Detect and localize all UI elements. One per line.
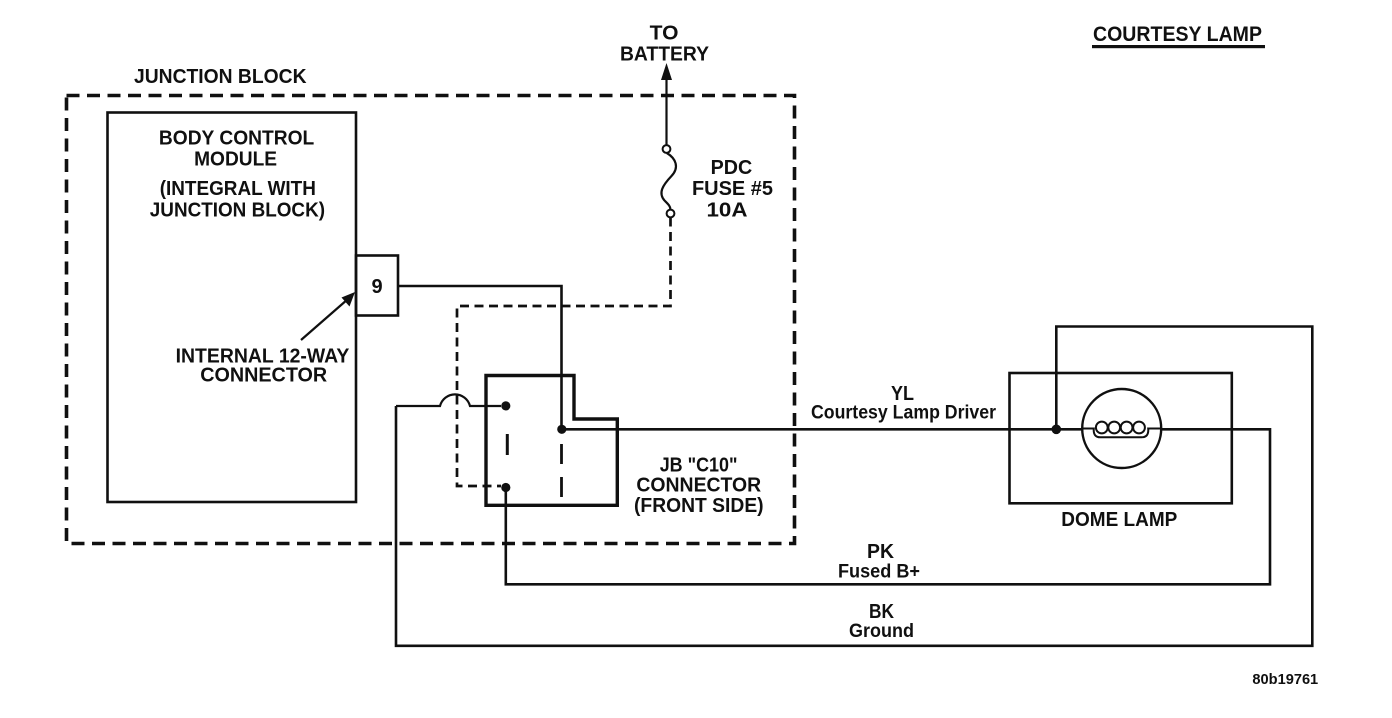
title underline	[1092, 45, 1265, 48]
connector pin box 9	[356, 256, 398, 316]
fuse F5 top terminal circle	[663, 145, 671, 153]
svg-text:10A: 10A	[707, 200, 748, 222]
wire pin 9 to connector C10	[398, 286, 562, 425]
wire PK fused B+	[506, 429, 1270, 584]
dashed wire fuse to junction block	[457, 218, 671, 487]
svg-text:9: 9	[371, 276, 382, 298]
svg-text:CONNECTOR: CONNECTOR	[636, 474, 761, 496]
svg-text:JUNCTION BLOCK): JUNCTION BLOCK)	[150, 200, 325, 222]
junction dot at dome lamp	[1052, 425, 1062, 435]
svg-text:COURTESY LAMP: COURTESY LAMP	[1093, 23, 1262, 46]
svg-text:JUNCTION BLOCK: JUNCTION BLOCK	[134, 66, 307, 88]
dome lamp housing box	[1010, 373, 1232, 503]
svg-text:Fused B+: Fused B+	[838, 562, 920, 583]
svg-text:FUSE #5: FUSE #5	[692, 178, 773, 200]
svg-text:BODY CONTROL: BODY CONTROL	[159, 128, 314, 150]
svg-text:Ground: Ground	[849, 621, 914, 642]
svg-text:MODULE: MODULE	[194, 149, 277, 171]
arrow to battery	[661, 63, 672, 146]
arrow to pin 9	[301, 292, 355, 340]
terminal dot lower left (PK)	[501, 483, 510, 492]
connector cavity dash right	[560, 444, 563, 497]
dome lamp bulb filament	[1083, 422, 1162, 438]
terminal dot YL	[557, 425, 566, 434]
wire YL courtesy lamp driver	[562, 428, 1083, 431]
connector cavity dash left	[506, 434, 509, 455]
wire BK ground	[396, 327, 1312, 646]
svg-text:CONNECTOR: CONNECTOR	[200, 364, 328, 386]
svg-text:BK: BK	[869, 601, 894, 623]
terminal dot upper left (BK)	[501, 401, 510, 410]
svg-text:Courtesy Lamp Driver: Courtesy Lamp Driver	[811, 403, 997, 424]
svg-text:DOME LAMP: DOME LAMP	[1061, 509, 1177, 531]
connector JB C10 outline	[486, 376, 617, 506]
svg-text:BATTERY: BATTERY	[620, 43, 710, 65]
body control module U1 box	[108, 113, 357, 503]
svg-text:(INTEGRAL WITH: (INTEGRAL WITH	[160, 178, 316, 200]
svg-text:PDC: PDC	[711, 157, 753, 179]
fuse F5 bottom terminal circle	[667, 210, 675, 218]
wire BK into connector with hump	[396, 394, 501, 406]
svg-text:PK: PK	[867, 541, 895, 563]
fuse F5 element	[661, 153, 676, 209]
svg-text:80b19761: 80b19761	[1252, 671, 1318, 688]
svg-text:(FRONT SIDE): (FRONT SIDE)	[634, 495, 764, 517]
dome lamp bulb circle	[1082, 389, 1161, 468]
svg-text:JB "C10": JB "C10"	[660, 454, 738, 476]
junction block dashed border	[67, 96, 795, 544]
svg-text:TO: TO	[650, 22, 679, 44]
